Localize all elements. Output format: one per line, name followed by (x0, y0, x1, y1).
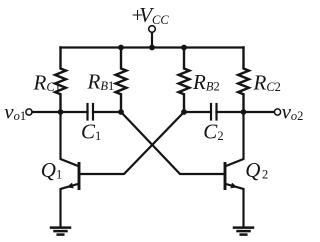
resistor RC2 (238, 48, 249, 113)
node RC2-vo2 (241, 109, 247, 115)
wire VCC to rail (151, 33, 153, 48)
resistor RC1 (55, 48, 66, 113)
node RB1-base2 (118, 109, 124, 115)
wire RB2 to C2 (184, 111, 211, 113)
svg-text:Q2: Q2 (245, 158, 268, 182)
transistor Q2 (225, 112, 244, 227)
wire C1 to RB1 node (93, 111, 121, 113)
wire cross to Q2 base (121, 112, 224, 174)
resistor RB2 (179, 48, 190, 113)
svg-text:vo1: vo1 (4, 99, 26, 123)
wire vo1 to C1 (32, 111, 87, 113)
svg-text:C2: C2 (203, 120, 223, 144)
ground left (51, 228, 70, 235)
node rail-VCC (149, 45, 155, 51)
ground right (234, 228, 253, 235)
node vo1-RC1 (58, 109, 64, 115)
wire top rail (61, 46, 244, 48)
svg-text:RC2: RC2 (253, 71, 281, 95)
svg-text:vo2: vo2 (282, 99, 304, 123)
wire C2 to vo2 (217, 111, 275, 113)
node rail-RB2 (181, 45, 187, 51)
svg-text:Q1: Q1 (41, 158, 62, 182)
capacitor C2 (211, 104, 217, 120)
svg-text:RB2: RB2 (192, 70, 220, 94)
capacitor C1 (88, 104, 94, 120)
node rail-RB1 (118, 45, 124, 51)
transistor Q1 (61, 112, 80, 227)
VCC terminal (149, 26, 156, 33)
resistor RB1 (116, 48, 127, 113)
node RB2-base1 (181, 109, 187, 115)
svg-text:RB1: RB1 (87, 70, 115, 94)
svg-text:CC: CC (152, 13, 169, 27)
terminal vo2 (274, 109, 280, 115)
wire cross to Q1 base (80, 112, 184, 174)
svg-text:C1: C1 (81, 120, 101, 144)
terminal vo1 (26, 109, 32, 115)
